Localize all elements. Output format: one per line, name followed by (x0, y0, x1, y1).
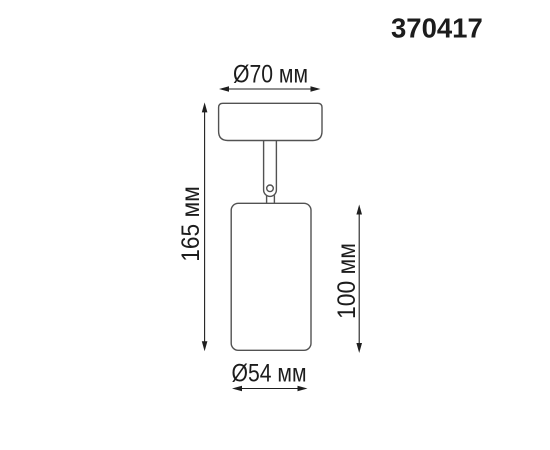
svg-text:Ø70 мм: Ø70 мм (233, 61, 308, 89)
svg-text:370417: 370417 (391, 13, 483, 44)
svg-text:165 мм: 165 мм (177, 186, 205, 262)
svg-text:100 мм: 100 мм (333, 243, 361, 319)
svg-text:Ø54 мм: Ø54 мм (232, 360, 307, 388)
